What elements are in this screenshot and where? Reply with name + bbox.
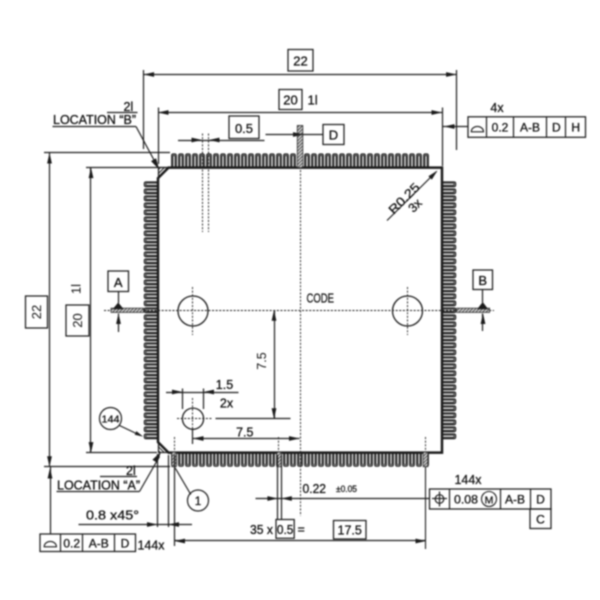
svg-text:CODE: CODE — [307, 291, 335, 306]
svg-text:A: A — [114, 275, 123, 290]
svg-text:144x: 144x — [138, 539, 166, 553]
svg-text:4x: 4x — [490, 101, 504, 115]
svg-text:22: 22 — [29, 305, 44, 319]
svg-text:A-B: A-B — [89, 537, 109, 551]
svg-text:1.5: 1.5 — [216, 378, 233, 392]
svg-text:M: M — [485, 494, 494, 506]
svg-text:H: H — [571, 121, 580, 135]
svg-text:0.08: 0.08 — [454, 493, 478, 507]
svg-text:1: 1 — [195, 496, 201, 508]
svg-text:7.5: 7.5 — [255, 352, 269, 369]
svg-text:0.2: 0.2 — [63, 537, 80, 551]
svg-text:B: B — [478, 273, 487, 288]
svg-text:144x: 144x — [455, 473, 483, 487]
svg-text:20: 20 — [283, 93, 297, 108]
svg-text:D: D — [536, 493, 545, 507]
svg-text:=: = — [298, 523, 305, 537]
svg-text:35 x: 35 x — [250, 523, 274, 537]
svg-text:0.5: 0.5 — [277, 523, 294, 537]
svg-text:A-B: A-B — [505, 493, 525, 507]
svg-text:D: D — [121, 537, 130, 551]
svg-text:144: 144 — [102, 414, 120, 426]
svg-text:22: 22 — [293, 54, 307, 69]
svg-text:A-B: A-B — [520, 121, 540, 135]
svg-text:D: D — [329, 128, 338, 143]
svg-text:1l: 1l — [69, 284, 84, 294]
svg-text:LOCATION “B”: LOCATION “B” — [53, 113, 136, 127]
svg-text:2x: 2x — [220, 397, 234, 411]
svg-text:7.5: 7.5 — [236, 426, 253, 440]
svg-text:0.22: 0.22 — [303, 482, 327, 496]
svg-text:0.2: 0.2 — [492, 121, 509, 135]
svg-text:20: 20 — [70, 313, 85, 327]
svg-text:0.8 x45°: 0.8 x45° — [86, 509, 139, 523]
svg-text:±0.05: ±0.05 — [336, 484, 357, 494]
svg-text:0.5: 0.5 — [235, 121, 253, 136]
svg-text:1l: 1l — [308, 93, 318, 108]
svg-text:C: C — [536, 513, 545, 527]
svg-text:LOCATION “A”: LOCATION “A” — [57, 479, 140, 493]
svg-text:D: D — [552, 121, 561, 135]
svg-text:17.5: 17.5 — [338, 524, 362, 538]
